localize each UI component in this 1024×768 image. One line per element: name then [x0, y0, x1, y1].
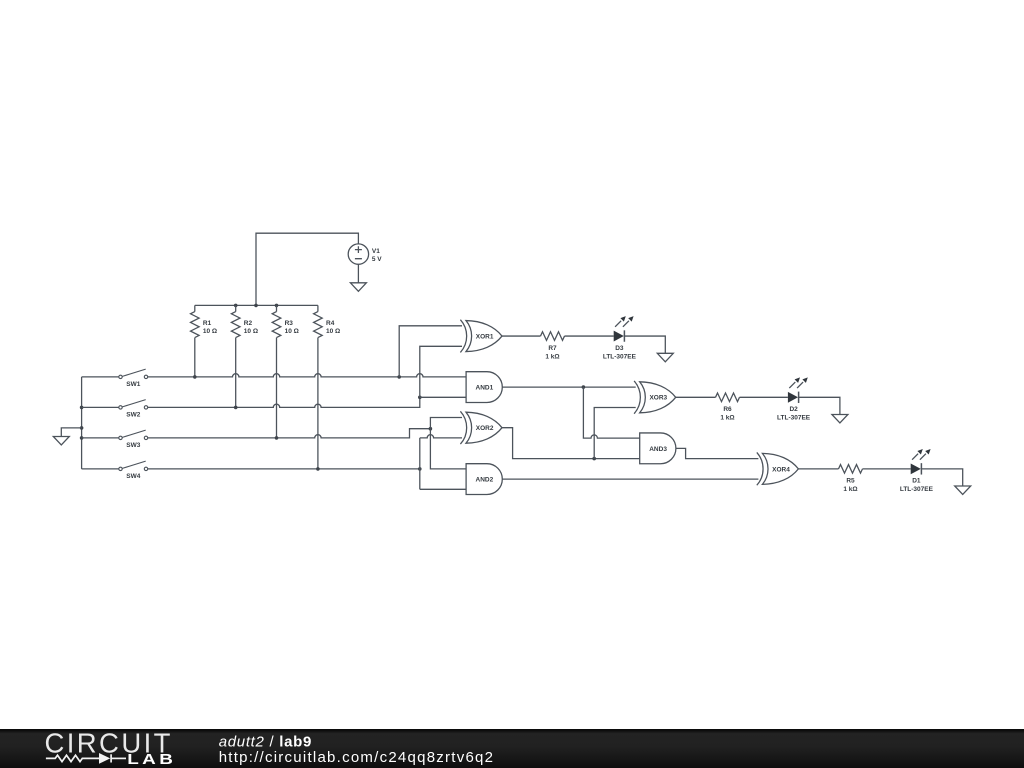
label D2 LTL-307EE [777, 406, 811, 421]
node junction bus-V1 [254, 304, 258, 308]
wire V1 bottom to ground [357, 264, 359, 282]
svg-text:R3: R3 [285, 320, 294, 327]
label XOR1 [476, 334, 494, 341]
gate AND1 [466, 372, 502, 403]
svg-text:R1: R1 [203, 320, 212, 327]
wire XOR1 output to R7 [502, 335, 541, 337]
wire to AND2 lower input [420, 488, 466, 490]
label R4 10 Ohm [326, 320, 340, 335]
wire AND3 output step to XOR4 upper input [676, 448, 759, 458]
LED D3 [614, 316, 634, 342]
wire SW4 branch vertical [419, 438, 421, 489]
svg-text:http://circuitlab.com/c24qq8zr: http://circuitlab.com/c24qq8zrtv6q2 [219, 749, 495, 766]
label XOR4 [772, 466, 790, 473]
wire AND1 output to XOR3 upper input [502, 386, 635, 388]
svg-text:1 kΩ: 1 kΩ [720, 415, 734, 422]
wire SW3 branch down to AND2 upper input [430, 429, 466, 469]
svg-text:SW1: SW1 [126, 381, 140, 388]
svg-text:10 Ω: 10 Ω [203, 328, 217, 335]
label SW4 [126, 473, 140, 480]
node junction bus-R2 [234, 304, 238, 308]
wire AND1out branch down to AND3 upper input with hop [583, 387, 639, 438]
switch SW2 [119, 400, 148, 410]
svg-text:AND3: AND3 [649, 446, 667, 453]
svg-text:LTL-307EE: LTL-307EE [603, 353, 637, 360]
node junction XOR2out branch [592, 457, 596, 461]
svg-text:SW2: SW2 [126, 411, 140, 418]
voltage source V1 [348, 244, 368, 264]
node junction SW1-R1 [193, 375, 197, 379]
svg-text:SW4: SW4 [126, 473, 140, 480]
wire to AND1 lower input [420, 396, 466, 398]
node junction SW4 branch [418, 467, 422, 471]
wire SW2 row with hops over R3 R4 [148, 397, 420, 407]
LED D2 [788, 377, 808, 403]
svg-text:D1: D1 [912, 478, 921, 485]
svg-text:5 V: 5 V [372, 256, 382, 263]
label R6 1 kOhm [720, 406, 734, 421]
label V1 value 5 V [372, 248, 382, 263]
gate XOR4 [757, 452, 799, 485]
logo resistor-diode wire [46, 753, 126, 764]
wire top bus [195, 304, 318, 306]
svg-text:1 kΩ: 1 kΩ [843, 486, 857, 493]
wire XOR3 output to R6 [676, 396, 716, 398]
gate XOR2 [460, 411, 502, 444]
svg-text:XOR3: XOR3 [649, 395, 667, 402]
resistor R6 [716, 393, 740, 402]
svg-text:XOR2: XOR2 [476, 425, 494, 432]
wire rail to SW4 [82, 468, 119, 470]
node junction SW3 branch [429, 427, 433, 431]
wire XOR1 upper input tap [399, 326, 462, 377]
resistor R4 [314, 305, 323, 469]
ground for V1 [350, 283, 366, 292]
svg-text:R2: R2 [244, 320, 253, 327]
node junction SW4-R4 [316, 467, 320, 471]
wire D3 to ground [625, 336, 666, 353]
wire ground stub [61, 428, 81, 437]
label D3 LTL-307EE [603, 345, 637, 360]
node junction SW2 branch [418, 396, 422, 400]
label AND3 [649, 446, 667, 453]
ground for D1 [955, 486, 971, 495]
ground for D2 [832, 415, 848, 424]
label R7 1 kOhm [545, 345, 559, 360]
svg-text:R5: R5 [846, 478, 855, 485]
ground for rail [53, 437, 69, 446]
LED D1 [911, 449, 931, 475]
resistor R5 [839, 465, 863, 474]
label XOR2 [476, 425, 494, 432]
svg-text:10 Ω: 10 Ω [285, 328, 299, 335]
node junction SW3-R3 [275, 436, 279, 440]
label SW3 [126, 442, 140, 449]
wire to XOR2 lower input with hop [420, 435, 462, 438]
svg-text:AND1: AND1 [476, 385, 494, 392]
svg-text:adutt2 / lab9: adutt2 / lab9 [219, 734, 312, 751]
svg-text:D2: D2 [789, 406, 798, 413]
svg-text:XOR1: XOR1 [476, 334, 494, 341]
resistor R3 [272, 305, 281, 438]
wire rail to SW2 [82, 406, 119, 408]
wire to XOR2 upper input [430, 418, 462, 429]
label R3 10 Ohm [285, 320, 299, 335]
wire rail to SW3 [82, 437, 119, 439]
gate AND3 [640, 433, 676, 464]
svg-text:R7: R7 [548, 345, 557, 352]
label R5 1 kOhm [843, 478, 857, 493]
label AND1 [476, 385, 494, 392]
wire AND2 output to XOR4 lower input [502, 478, 758, 480]
svg-text:R6: R6 [723, 406, 732, 413]
wire to XOR1 lower input [420, 346, 462, 397]
node junction rail-SW2 [80, 406, 84, 410]
wire SW1 row with hops over R2 R3 R4 and x420 [148, 374, 466, 377]
svg-text:LTL-307EE: LTL-307EE [900, 486, 934, 493]
node junction rail-ground [80, 426, 84, 430]
resistor R2 [231, 305, 240, 407]
node junction bus-R3 [275, 304, 279, 308]
gate XOR3 [634, 381, 676, 414]
switch SW4 [119, 461, 148, 471]
svg-text:D3: D3 [615, 345, 624, 352]
wire XOR2 output step down [502, 428, 640, 459]
gate XOR1 [460, 320, 502, 353]
wire V1 top to bus [256, 233, 358, 305]
wire SW4 row [148, 468, 420, 470]
svg-text:AND2: AND2 [476, 477, 494, 484]
wire rail to SW1 [82, 376, 119, 378]
resistor R7 [541, 332, 565, 341]
svg-text:10 Ω: 10 Ω [244, 328, 258, 335]
label R1 10 Ohm [203, 320, 217, 335]
label XOR3 [649, 395, 667, 402]
svg-text:1 kΩ: 1 kΩ [545, 353, 559, 360]
wire D1 to ground [922, 469, 963, 486]
wire XOR4 output to R5 [798, 468, 838, 470]
svg-text:10 Ω: 10 Ω [326, 328, 340, 335]
wire SW3 row with hop over R4 [148, 429, 431, 438]
node junction SW1-XOR1tap [397, 375, 401, 379]
svg-text:V1: V1 [372, 248, 380, 255]
label R2 10 Ohm [244, 320, 258, 335]
node junction rail-SW3 [80, 436, 84, 440]
label D1 LTL-307EE [900, 478, 934, 493]
resistor R1 [191, 305, 200, 377]
svg-text:R4: R4 [326, 320, 335, 327]
svg-text:LAB: LAB [127, 751, 176, 767]
wire D2 to ground [799, 397, 840, 414]
wire XOR2out branch up to XOR3 lower input [594, 408, 636, 459]
svg-text:LTL-307EE: LTL-307EE [777, 415, 811, 422]
node junction SW2-R2 [234, 406, 238, 410]
label AND2 [476, 477, 494, 484]
wire R5 to D1 [863, 468, 911, 470]
gate AND2 [466, 464, 502, 495]
wire R7 to D3 [565, 335, 614, 337]
left rail wire [81, 377, 83, 469]
svg-text:XOR4: XOR4 [772, 466, 790, 473]
switch SW3 [119, 430, 148, 440]
label SW2 [126, 411, 140, 418]
ground for D3 [657, 353, 673, 362]
label SW1 [126, 381, 140, 388]
node junction AND1out branch [582, 385, 586, 389]
wire R6 to D2 [740, 396, 788, 398]
svg-text:SW3: SW3 [126, 442, 140, 449]
switch SW1 [119, 369, 148, 379]
